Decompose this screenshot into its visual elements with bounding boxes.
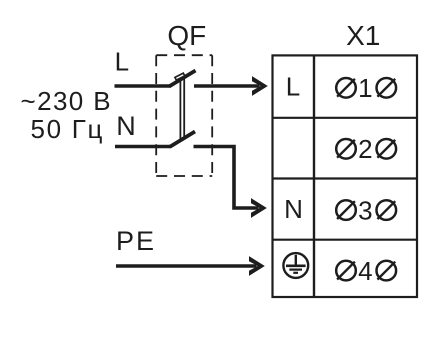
svg-text:L: L [115,47,129,77]
wire L input [115,84,171,88]
terminal 3 screws and pin number 3 [336,195,396,225]
terminal block row divider 1 [273,117,418,119]
terminal block row divider 3 [273,239,418,241]
svg-text:N: N [116,111,136,141]
wire N input [115,145,170,149]
PE terminal symbol (protective earth in circle) [283,253,308,278]
terminal 4 screws and pin number 4 [336,256,396,286]
terminal 1 screws and pin number 1 [336,73,396,103]
wire L output with arrow to X1 terminal 1 [194,76,268,96]
svg-text:PE: PE [116,226,156,256]
wire PE with arrow to X1 terminal 4 [116,256,265,276]
svg-text:3: 3 [358,195,372,225]
circuit breaker QF enclosure (dashed box) [156,55,212,176]
terminal block X1 outline [273,55,418,297]
svg-text:QF: QF [167,20,206,51]
svg-text:1: 1 [358,73,372,103]
svg-text:50 Гц: 50 Гц [31,114,105,144]
terminal 2 screws and pin number 2 [336,134,396,164]
supply label ~230 В 50 Гц [21,86,113,144]
svg-text:2: 2 [358,134,372,164]
svg-text:N: N [284,194,303,224]
svg-text:L: L [286,72,300,102]
wire N output with arrow to X1 terminal 3 [194,147,267,218]
svg-text:~230 В: ~230 В [21,86,113,116]
terminal block column divider [313,55,315,297]
QF pole 2 contact (N) [170,132,196,148]
svg-text:X1: X1 [346,20,380,51]
svg-text:4: 4 [358,256,372,286]
terminal block row divider 2 [273,177,418,179]
QF mechanical linkage (double line) [180,78,184,140]
QF pole 1 contact (L) [169,71,196,87]
